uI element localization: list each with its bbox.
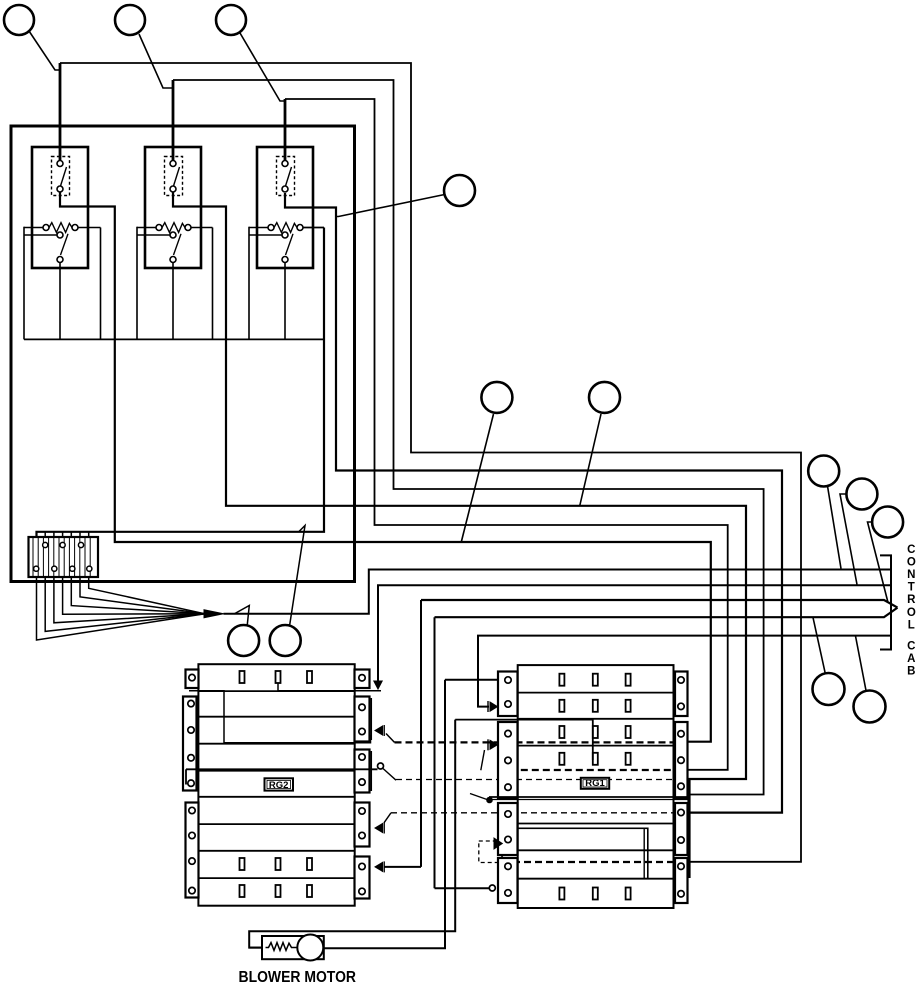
svg-text:BLOWER MOTOR: BLOWER MOTOR bbox=[239, 969, 357, 984]
svg-text:RG2: RG2 bbox=[269, 780, 289, 791]
svg-text:N: N bbox=[907, 569, 915, 581]
svg-text:O: O bbox=[907, 556, 916, 568]
svg-text:L: L bbox=[908, 619, 915, 631]
svg-text:B: B bbox=[907, 666, 915, 678]
svg-text:R: R bbox=[907, 594, 916, 606]
svg-text:RG1: RG1 bbox=[585, 778, 605, 789]
svg-text:O: O bbox=[907, 607, 916, 619]
svg-text:C: C bbox=[907, 544, 915, 556]
svg-text:T: T bbox=[908, 582, 915, 594]
svg-text:A: A bbox=[907, 653, 915, 665]
svg-text:C: C bbox=[907, 641, 915, 653]
